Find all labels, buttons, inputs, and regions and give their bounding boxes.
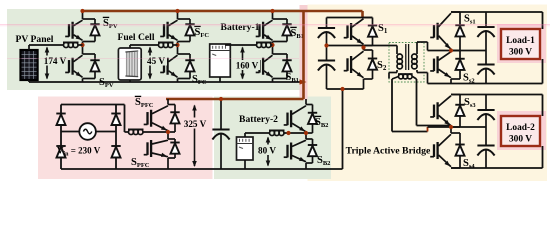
- svg-text:Triple Active Bridge: Triple Active Bridge: [346, 146, 431, 157]
- svg-text:80 V: 80 V: [258, 146, 276, 156]
- svg-text:300 V: 300 V: [509, 48, 532, 58]
- svg-text:325 V: 325 V: [184, 119, 207, 129]
- svg-text:300 V: 300 V: [509, 135, 532, 145]
- svg-text:Fuel Cell: Fuel Cell: [117, 32, 154, 43]
- svg-text:PV Panel: PV Panel: [16, 34, 54, 45]
- svg-text:Load-2: Load-2: [506, 123, 535, 133]
- svg-text:45 V: 45 V: [147, 56, 165, 66]
- svg-text:Load-1: Load-1: [506, 36, 535, 46]
- svg-text:Battery-1: Battery-1: [221, 22, 260, 33]
- svg-text:Battery-2: Battery-2: [239, 114, 278, 125]
- svg-text:160 V: 160 V: [236, 61, 259, 71]
- svg-text:174 V: 174 V: [44, 56, 67, 66]
